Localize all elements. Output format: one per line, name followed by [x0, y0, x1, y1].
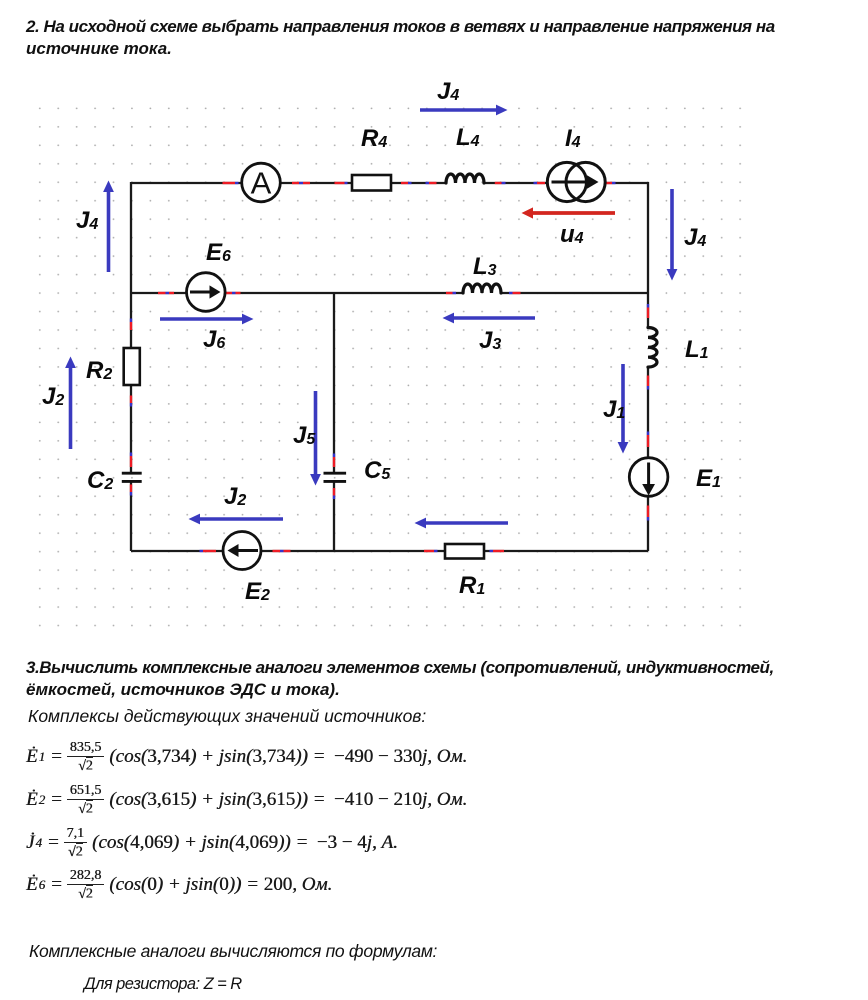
wire: right branch vertical [647, 182, 649, 551]
current arrow J2 (left branch, up) [65, 357, 76, 450]
voltage arrow u4 (red, left) [522, 207, 616, 218]
svg-text:A: A [251, 166, 272, 201]
EMF source E2 [223, 532, 261, 570]
current arrow J4 (right, down) [667, 189, 678, 281]
formula E6 [26, 865, 332, 905]
current arrow (bottom right, left) [415, 518, 509, 529]
formula E1 [26, 737, 467, 777]
terminal marks (red/blue) on left branch [130, 319, 132, 496]
wire: middle net, left segment [131, 292, 463, 294]
inductor L4 [446, 174, 484, 183]
closing lines [29, 941, 437, 962]
current arrow J6 (right) [160, 314, 254, 325]
terminal marks (red/blue) on center branch [333, 454, 335, 500]
subheading [28, 706, 426, 727]
EMF source E1 [629, 458, 668, 497]
wire: left branch vertical [130, 182, 132, 551]
svg-text:J4: J4 [437, 78, 459, 105]
current source I4 [547, 162, 605, 201]
current arrow J4 (left, up) [103, 181, 114, 273]
wire: bottom net [131, 550, 648, 552]
formula J4 [26, 823, 398, 863]
resistor R1 [445, 544, 484, 559]
title [26, 16, 868, 59]
wire: top net, left segment [131, 182, 446, 184]
current arrow J4 (top, right) [420, 105, 508, 116]
current arrow J5 (down) [310, 391, 321, 486]
current arrow J3 (left) [443, 313, 536, 324]
inductor L1 [648, 328, 657, 368]
section 3 heading [26, 657, 868, 700]
formula E2 [26, 780, 467, 820]
ammeter A [242, 163, 281, 202]
terminal marks (red/blue) on middle net [158, 292, 521, 294]
EMF source E6 [187, 273, 226, 312]
terminal marks (red/blue) on top net [223, 182, 616, 184]
capacitor C2 [122, 473, 142, 481]
resistor R2 [124, 348, 140, 385]
terminal marks (red/blue) on bottom net [200, 550, 505, 552]
wire: center branch vertical (C5 branch) [333, 293, 335, 551]
wire: top net, right segment [484, 182, 648, 184]
inductor L3 [463, 284, 501, 293]
wire: middle net, right segment [501, 292, 648, 294]
capacitor C5 [324, 473, 347, 481]
terminal marks (red/blue) on right branch [647, 304, 649, 521]
resistor R4 [352, 175, 391, 191]
current arrow J1 (down) [618, 364, 629, 454]
current arrow J2 (bottom, left) [189, 514, 284, 525]
